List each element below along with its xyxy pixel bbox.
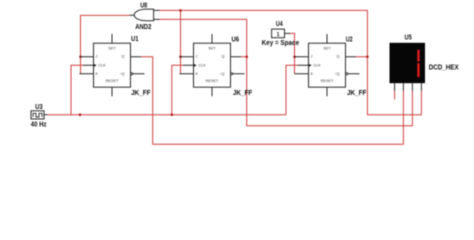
wire U4 key to U2 J/K xyxy=(290,33,295,73)
wire net Q1: AND2 bottom input to Q of U6 and display pin 3 xyxy=(160,19,413,125)
svg-text:J: J xyxy=(96,55,98,59)
wire U6 CLK tap xyxy=(172,65,183,114)
svg-text:RESET: RESET xyxy=(321,79,334,83)
svg-text:SET: SET xyxy=(208,46,216,50)
svg-text:AND2: AND2 xyxy=(135,22,151,31)
svg-text:U1: U1 xyxy=(131,34,139,43)
wire clock line from U3 to U2 CLK xyxy=(48,65,298,114)
svg-text:U6: U6 xyxy=(232,34,240,43)
svg-text:~Q: ~Q xyxy=(119,72,124,76)
svg-text:~Q: ~Q xyxy=(219,72,224,76)
junction dot on clock line left xyxy=(79,113,82,116)
svg-text:Q: Q xyxy=(122,55,125,59)
wire display pin 1 stub xyxy=(394,91,396,100)
flip-flop U2 xyxy=(295,34,367,97)
svg-text:DCD_HEX: DCD_HEX xyxy=(429,63,459,72)
clock source U3 40 Hz xyxy=(31,102,48,128)
junction dot U2 J xyxy=(293,56,296,59)
key switch U4 xyxy=(262,19,300,47)
junction dot U6 J xyxy=(179,56,182,59)
svg-text:RESET: RESET xyxy=(206,79,219,83)
svg-text:Key = Space: Key = Space xyxy=(262,38,300,47)
svg-text:Q: Q xyxy=(222,55,225,59)
flip-flop U1 xyxy=(80,34,151,97)
junction dot U6 tie on net Q2 xyxy=(179,9,182,12)
svg-text:CLK: CLK xyxy=(98,63,106,67)
wire U1 CLK tap xyxy=(71,65,83,114)
svg-text:U2: U2 xyxy=(346,34,353,43)
wire AND2 output to U1 J/K xyxy=(81,15,130,73)
svg-text:RESET: RESET xyxy=(106,79,119,83)
svg-text:U8: U8 xyxy=(140,1,147,10)
junction dot Q of U2 xyxy=(366,56,369,59)
svg-text:SET: SET xyxy=(108,46,116,50)
svg-text:JK_FF: JK_FF xyxy=(131,88,151,97)
junction dot U6 CLK tap xyxy=(171,113,174,116)
svg-text:U3: U3 xyxy=(35,102,43,111)
svg-text:U5: U5 xyxy=(405,33,412,42)
svg-text:~Q: ~Q xyxy=(334,72,339,76)
svg-text:SET: SET xyxy=(323,46,331,50)
wire net Q0: Q of U1 to display pin 2 xyxy=(141,57,403,145)
junction dot U1 J xyxy=(79,56,82,59)
wire U6 J/K tie to net Q2 line xyxy=(180,10,182,73)
and-gate U8 xyxy=(130,1,160,32)
svg-text:U4: U4 xyxy=(276,19,283,28)
junction dot Q of U6 xyxy=(245,56,248,59)
svg-text:Q: Q xyxy=(337,55,340,59)
svg-text:JK_FF: JK_FF xyxy=(347,88,367,97)
svg-text:JK_FF: JK_FF xyxy=(233,88,253,97)
svg-text:J: J xyxy=(196,55,198,59)
svg-text:J: J xyxy=(311,55,313,59)
svg-text:40 Hz: 40 Hz xyxy=(31,119,47,128)
svg-text:CLK: CLK xyxy=(198,63,206,67)
wire net Q2: AND2 top input to Q of U2 and display pin 4 xyxy=(160,10,422,114)
svg-text:CLK: CLK xyxy=(313,63,321,67)
flip-flop U6 xyxy=(180,34,253,97)
seven-segment display U5 DCD_HEX xyxy=(390,33,459,92)
